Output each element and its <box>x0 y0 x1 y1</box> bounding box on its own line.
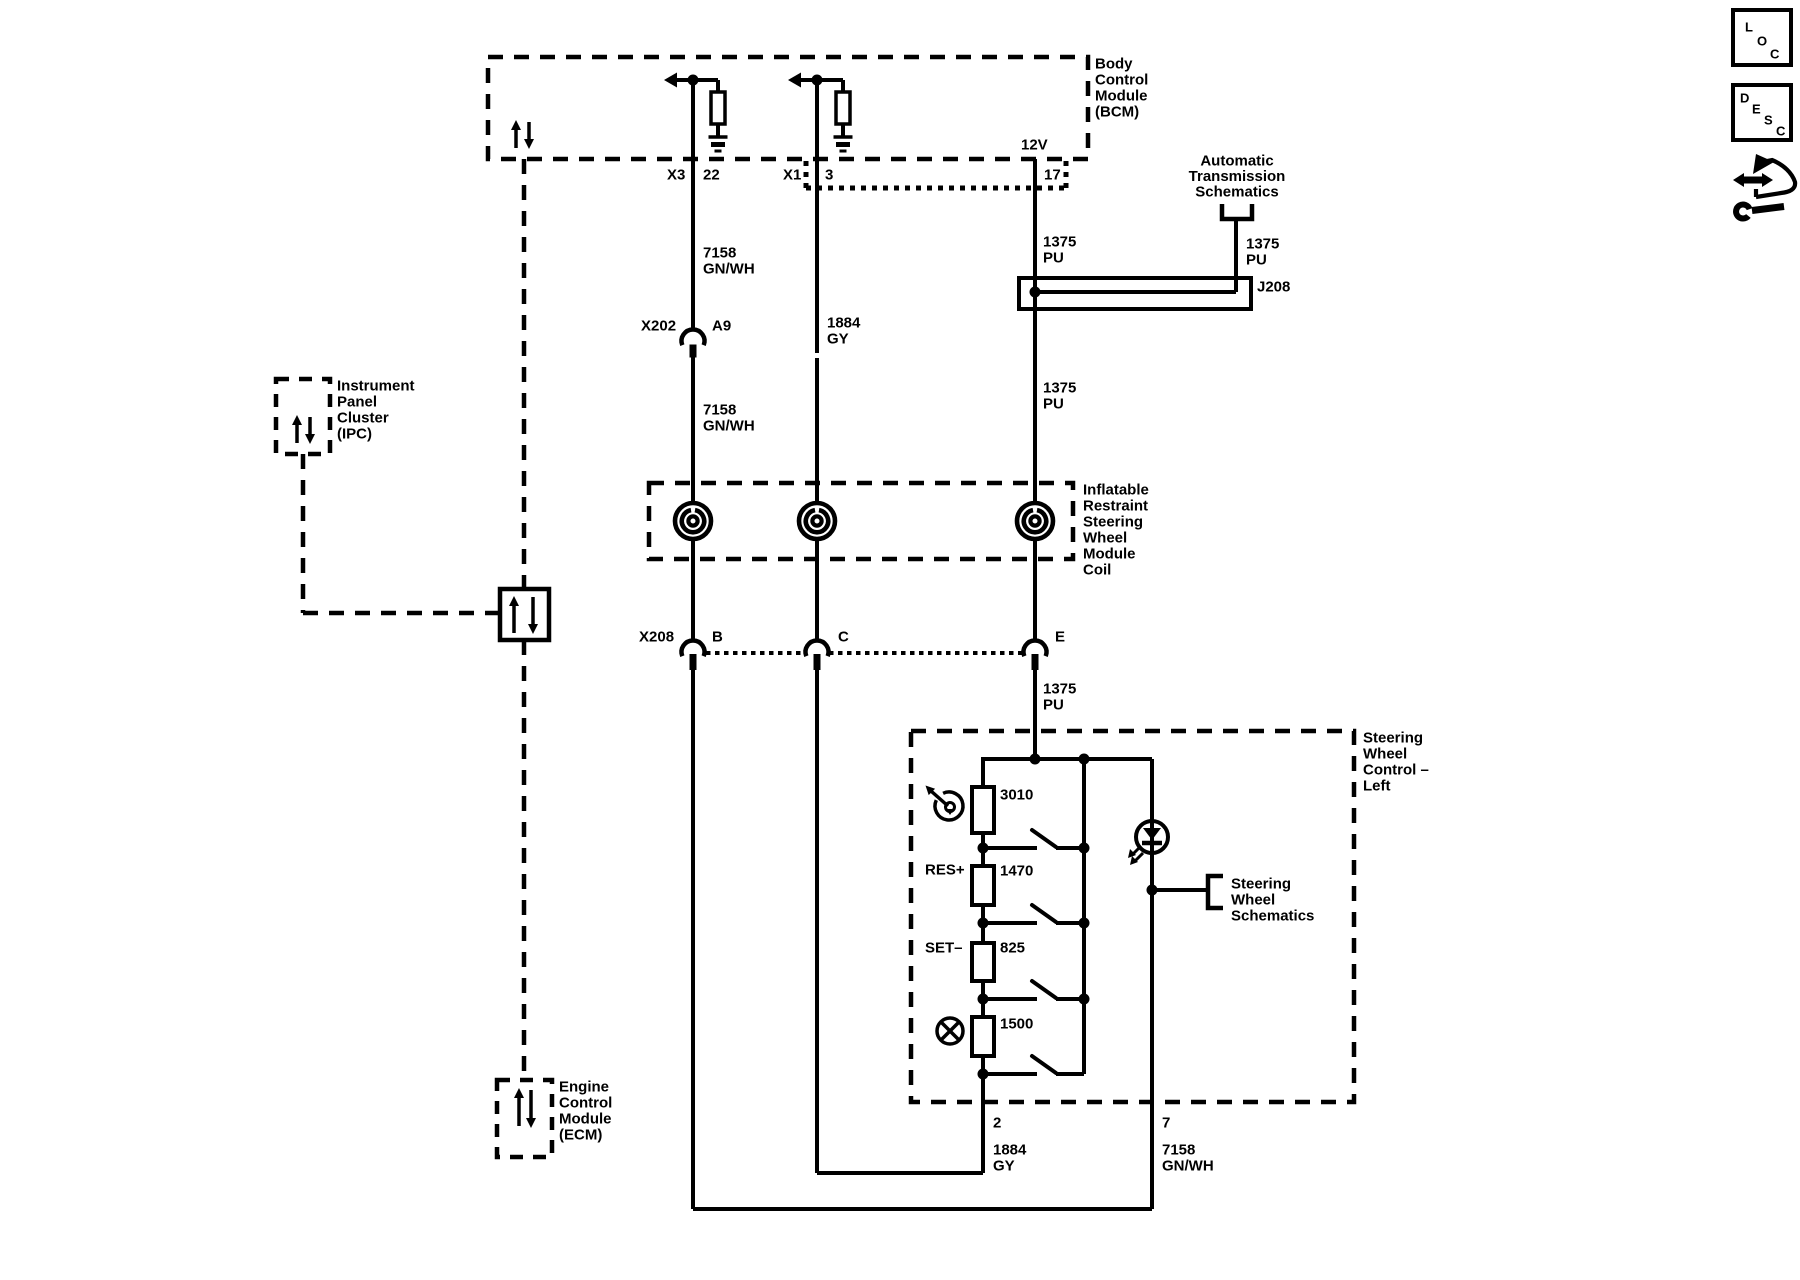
svg-text:(BCM): (BCM) <box>1095 103 1139 120</box>
svg-text:PU: PU <box>1043 696 1064 713</box>
svg-text:Schematics: Schematics <box>1195 183 1278 200</box>
svg-text:1884: 1884 <box>993 1141 1027 1158</box>
svg-text:(ECM): (ECM) <box>559 1126 602 1143</box>
svg-text:B: B <box>712 628 723 645</box>
svg-text:825: 825 <box>1000 939 1025 956</box>
svg-text:A9: A9 <box>712 317 731 334</box>
svg-text:Module: Module <box>559 1110 612 1127</box>
svg-text:1500: 1500 <box>1000 1015 1033 1032</box>
svg-text:Cluster: Cluster <box>337 409 389 426</box>
svg-text:X3: X3 <box>667 166 685 183</box>
svg-text:Schematics: Schematics <box>1231 907 1314 924</box>
svg-text:C: C <box>838 628 849 645</box>
svg-text:7: 7 <box>1162 1114 1170 1131</box>
svg-text:S: S <box>1764 113 1773 128</box>
svg-text:Engine: Engine <box>559 1078 609 1095</box>
svg-text:J208: J208 <box>1257 278 1290 295</box>
svg-text:GY: GY <box>827 330 849 347</box>
svg-text:1375: 1375 <box>1043 379 1076 396</box>
svg-text:Panel: Panel <box>337 393 377 410</box>
svg-text:O: O <box>1757 34 1767 49</box>
svg-text:Control: Control <box>1095 71 1148 88</box>
svg-text:GN/WH: GN/WH <box>1162 1157 1214 1174</box>
svg-text:D: D <box>1740 91 1749 106</box>
svg-text:1375: 1375 <box>1043 233 1076 250</box>
svg-text:PU: PU <box>1043 395 1064 412</box>
svg-text:C: C <box>1770 47 1780 62</box>
svg-text:7158: 7158 <box>703 244 736 261</box>
svg-text:1470: 1470 <box>1000 862 1033 879</box>
svg-text:(IPC): (IPC) <box>337 425 372 442</box>
svg-text:RES+: RES+ <box>925 861 965 878</box>
svg-text:E: E <box>1752 102 1761 117</box>
svg-text:Left: Left <box>1363 777 1391 794</box>
svg-text:E: E <box>1055 628 1065 645</box>
svg-text:Transmission: Transmission <box>1189 168 1286 185</box>
svg-text:22: 22 <box>703 166 720 183</box>
svg-text:1375: 1375 <box>1246 235 1279 252</box>
svg-text:Module: Module <box>1083 545 1136 562</box>
svg-text:Automatic: Automatic <box>1200 152 1273 169</box>
svg-text:GN/WH: GN/WH <box>703 260 755 277</box>
svg-text:X208: X208 <box>639 628 674 645</box>
svg-text:Instrument: Instrument <box>337 377 415 394</box>
svg-text:Steering: Steering <box>1363 729 1423 746</box>
svg-text:Steering: Steering <box>1083 513 1143 530</box>
svg-text:Module: Module <box>1095 87 1148 104</box>
svg-text:3010: 3010 <box>1000 786 1033 803</box>
svg-text:2: 2 <box>993 1114 1001 1131</box>
svg-text:1375: 1375 <box>1043 680 1076 697</box>
svg-text:Control –: Control – <box>1363 761 1429 778</box>
svg-text:SET–: SET– <box>925 939 963 956</box>
svg-text:PU: PU <box>1246 251 1267 268</box>
svg-text:C: C <box>1776 124 1786 139</box>
svg-text:7158: 7158 <box>1162 1141 1195 1158</box>
svg-text:Inflatable: Inflatable <box>1083 481 1149 498</box>
svg-text:Wheel: Wheel <box>1363 745 1407 762</box>
svg-text:X1: X1 <box>783 166 801 183</box>
svg-text:Body: Body <box>1095 55 1133 72</box>
svg-text:L: L <box>1745 20 1753 35</box>
svg-text:PU: PU <box>1043 249 1064 266</box>
svg-text:X202: X202 <box>641 317 676 334</box>
svg-text:GN/WH: GN/WH <box>703 417 755 434</box>
svg-text:Control: Control <box>559 1094 612 1111</box>
svg-text:1884: 1884 <box>827 314 861 331</box>
svg-text:Wheel: Wheel <box>1231 891 1275 908</box>
svg-text:Wheel: Wheel <box>1083 529 1127 546</box>
svg-text:Restraint: Restraint <box>1083 497 1148 514</box>
svg-text:7158: 7158 <box>703 401 736 418</box>
svg-text:GY: GY <box>993 1157 1015 1174</box>
svg-text:Steering: Steering <box>1231 875 1291 892</box>
svg-text:17: 17 <box>1044 166 1061 183</box>
svg-text:Coil: Coil <box>1083 561 1111 578</box>
svg-text:12V: 12V <box>1021 136 1048 153</box>
svg-text:3: 3 <box>825 166 833 183</box>
